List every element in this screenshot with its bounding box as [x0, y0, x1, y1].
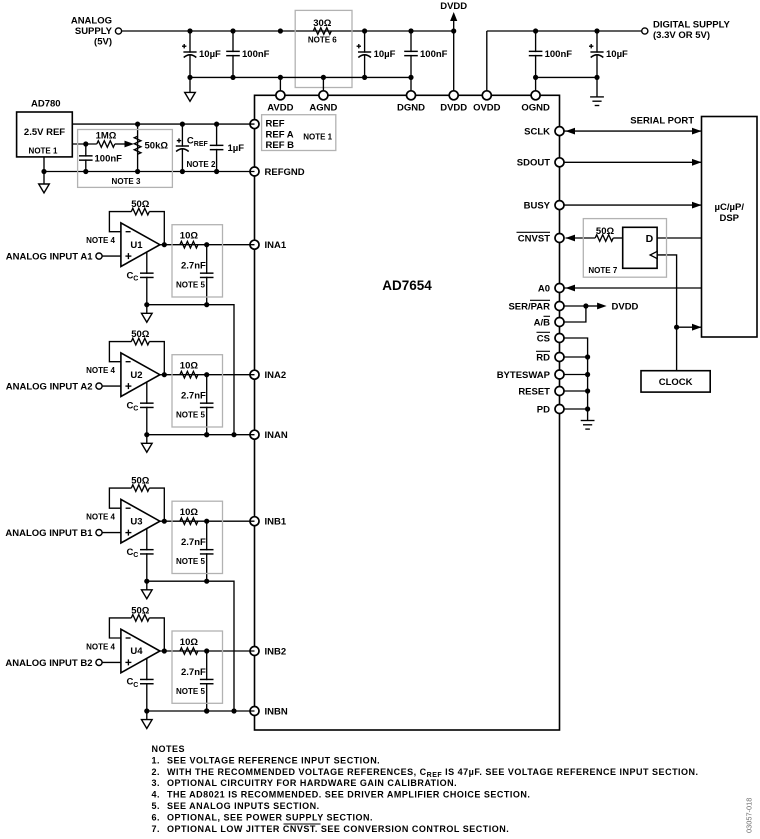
- svg-text:DVDD: DVDD: [440, 102, 467, 113]
- svg-text:AD780: AD780: [31, 99, 61, 110]
- svg-text:OPTIONAL LOW JITTER CNVST. SEE: OPTIONAL LOW JITTER CNVST. SEE CONVERSIO…: [167, 824, 509, 834]
- svg-text:OVDD: OVDD: [473, 102, 501, 113]
- svg-text:INA1: INA1: [265, 240, 287, 251]
- svg-text:BYTESWAP: BYTESWAP: [497, 370, 551, 381]
- svg-text:50Ω: 50Ω: [131, 199, 150, 210]
- svg-text:SEE VOLTAGE REFERENCE INPUT SE: SEE VOLTAGE REFERENCE INPUT SECTION.: [167, 755, 380, 765]
- svg-text:NOTE 4: NOTE 4: [86, 366, 115, 375]
- svg-text:OPTIONAL CIRCUITRY FOR HARDWAR: OPTIONAL CIRCUITRY FOR HARDWARE GAIN CAL…: [167, 778, 457, 788]
- svg-text:SER/PAR: SER/PAR: [508, 301, 550, 312]
- svg-text:BUSY: BUSY: [524, 200, 551, 211]
- svg-text:INBN: INBN: [265, 707, 288, 718]
- svg-text:NOTE 4: NOTE 4: [86, 513, 115, 522]
- svg-text:2.: 2.: [152, 767, 161, 777]
- svg-text:D: D: [646, 233, 654, 245]
- svg-text:10µF: 10µF: [606, 49, 628, 60]
- svg-text:REF A: REF A: [266, 129, 294, 140]
- svg-text:A0: A0: [538, 283, 550, 294]
- svg-text:2.7nF: 2.7nF: [181, 537, 206, 548]
- svg-text:C: C: [133, 552, 138, 559]
- svg-text:AGND: AGND: [309, 102, 337, 113]
- svg-text:NOTE 4: NOTE 4: [86, 643, 115, 652]
- svg-text:30Ω: 30Ω: [313, 18, 332, 29]
- svg-text:2.7nF: 2.7nF: [181, 667, 206, 678]
- svg-text:100nF: 100nF: [95, 154, 123, 165]
- svg-text:RESET: RESET: [518, 386, 550, 397]
- svg-text:SDOUT: SDOUT: [517, 158, 550, 169]
- svg-text:A/B: A/B: [534, 317, 551, 328]
- svg-text:SCLK: SCLK: [524, 126, 550, 137]
- svg-text:NOTE 5: NOTE 5: [176, 281, 205, 290]
- svg-text:10µF: 10µF: [374, 49, 396, 60]
- svg-text:10Ω: 10Ω: [180, 637, 199, 648]
- svg-text:CLOCK: CLOCK: [659, 377, 693, 388]
- svg-text:THE AD8021 IS RECOMMENDED. SEE: THE AD8021 IS RECOMMENDED. SEE DRIVER AM…: [167, 790, 530, 800]
- svg-text:10Ω: 10Ω: [180, 361, 199, 372]
- svg-text:ANALOG INPUT B1: ANALOG INPUT B1: [5, 528, 93, 539]
- svg-text:DVDD: DVDD: [612, 301, 639, 312]
- svg-text:U1: U1: [130, 240, 143, 251]
- svg-text:INB2: INB2: [265, 647, 287, 658]
- svg-text:PD: PD: [537, 404, 550, 415]
- svg-text:SERIAL PORT: SERIAL PORT: [630, 116, 694, 127]
- svg-text:NOTE 5: NOTE 5: [176, 687, 205, 696]
- svg-text:NOTE 2: NOTE 2: [187, 160, 216, 169]
- svg-text:NOTE 1: NOTE 1: [303, 132, 332, 141]
- svg-text:INB1: INB1: [265, 517, 287, 528]
- svg-text:C: C: [133, 276, 138, 283]
- svg-text:NOTE 3: NOTE 3: [112, 177, 141, 186]
- svg-text:AD7654: AD7654: [382, 278, 432, 293]
- svg-text:OPTIONAL, SEE POWER SUPPLY SEC: OPTIONAL, SEE POWER SUPPLY SECTION.: [167, 812, 373, 822]
- svg-text:50Ω: 50Ω: [131, 476, 150, 487]
- svg-text:ANALOG INPUT A1: ANALOG INPUT A1: [6, 252, 93, 263]
- svg-text:2.7nF: 2.7nF: [181, 391, 206, 402]
- svg-text:CNVST: CNVST: [518, 233, 550, 244]
- svg-text:DGND: DGND: [397, 102, 425, 113]
- svg-text:03057-018: 03057-018: [745, 798, 754, 833]
- svg-text:NOTE 7: NOTE 7: [588, 266, 617, 275]
- svg-text:10Ω: 10Ω: [180, 231, 199, 242]
- svg-text:10µF: 10µF: [199, 49, 221, 60]
- svg-text:C: C: [133, 406, 138, 413]
- svg-text:NOTE 1: NOTE 1: [29, 147, 58, 156]
- svg-text:2.7nF: 2.7nF: [181, 261, 206, 272]
- svg-text:REF B: REF B: [266, 140, 295, 151]
- svg-text:REF: REF: [266, 119, 285, 130]
- svg-text:7.: 7.: [152, 824, 161, 834]
- svg-text:100nF: 100nF: [420, 49, 448, 60]
- svg-text:2.5V REF: 2.5V REF: [24, 127, 65, 138]
- svg-text:NOTE 5: NOTE 5: [176, 411, 205, 420]
- svg-text:DSP: DSP: [719, 213, 739, 224]
- svg-text:50Ω: 50Ω: [131, 329, 150, 340]
- svg-text:C: C: [133, 682, 138, 689]
- svg-text:RD: RD: [536, 352, 550, 363]
- svg-text:SEE ANALOG INPUTS SECTION.: SEE ANALOG INPUTS SECTION.: [167, 801, 320, 811]
- svg-text:100nF: 100nF: [242, 49, 270, 60]
- svg-text:OGND: OGND: [521, 102, 550, 113]
- svg-text:NOTES: NOTES: [152, 744, 186, 754]
- svg-text:DIGITAL SUPPLY: DIGITAL SUPPLY: [653, 20, 731, 31]
- svg-text:10Ω: 10Ω: [180, 507, 199, 518]
- svg-text:INA2: INA2: [265, 370, 287, 381]
- svg-text:NOTE 4: NOTE 4: [86, 236, 115, 245]
- svg-text:DVDD: DVDD: [440, 1, 467, 12]
- svg-text:SUPPLY: SUPPLY: [75, 26, 113, 37]
- svg-text:6.: 6.: [152, 812, 161, 822]
- svg-text:50Ω: 50Ω: [596, 226, 615, 237]
- svg-text:CS: CS: [537, 333, 550, 344]
- svg-text:50Ω: 50Ω: [131, 606, 150, 617]
- svg-text:U2: U2: [130, 370, 142, 381]
- svg-text:ANALOG INPUT A2: ANALOG INPUT A2: [6, 382, 93, 393]
- svg-text:50kΩ: 50kΩ: [145, 141, 169, 152]
- svg-text:INAN: INAN: [265, 430, 288, 441]
- svg-text:ANALOG: ANALOG: [71, 16, 112, 27]
- svg-text:AVDD: AVDD: [267, 102, 293, 113]
- svg-text:1µF: 1µF: [228, 143, 245, 154]
- svg-text:1.: 1.: [152, 755, 161, 765]
- svg-text:100nF: 100nF: [545, 49, 573, 60]
- svg-text:U3: U3: [130, 516, 142, 527]
- svg-text:ANALOG INPUT B2: ANALOG INPUT B2: [5, 658, 92, 669]
- svg-text:NOTE 5: NOTE 5: [176, 557, 205, 566]
- svg-text:U4: U4: [130, 646, 143, 657]
- svg-text:(5V): (5V): [94, 37, 112, 48]
- svg-text:REFGND: REFGND: [265, 167, 305, 178]
- svg-text:3.: 3.: [152, 778, 161, 788]
- svg-text:(3.3V OR 5V): (3.3V OR 5V): [653, 30, 710, 41]
- svg-text:5.: 5.: [152, 801, 161, 811]
- svg-text:1MΩ: 1MΩ: [96, 131, 117, 142]
- svg-text:µC/µP/: µC/µP/: [715, 202, 745, 213]
- svg-text:4.: 4.: [152, 790, 161, 800]
- svg-text:NOTE 6: NOTE 6: [308, 36, 337, 45]
